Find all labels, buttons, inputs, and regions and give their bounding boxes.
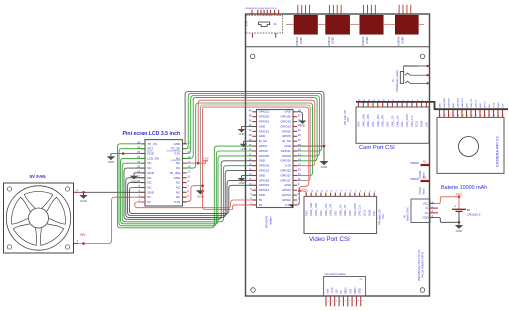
board label PWR [418,249,425,281]
svg-text:CAM_CN: CAM_CN [470,99,473,108]
svg-text:GND: GND [284,183,290,187]
csi ribbon bus wire [356,102,508,109]
svg-text:CAM1_DP1: CAM1_DP1 [382,114,385,127]
usb port USB1 [294,5,318,46]
wire green top 3 [183,97,318,160]
svg-text:(CS,2): (CS,2) [147,151,153,153]
svg-text:CAM1_DP0: CAM1_DP0 [367,114,370,127]
svg-text:21: 21 [298,153,301,157]
svg-text:SCL0: SCL0 [363,209,366,216]
svg-text:11: 11 [298,177,301,181]
GPIO header RPi [249,109,302,208]
svg-text:+5V: +5V [337,289,339,294]
svg-text:5: 5 [345,301,346,303]
junction fan gnd [79,191,87,203]
svg-text:(CS,INT,LD): (CS,INT,LD) [171,160,181,162]
svg-text:NC: NC [423,160,427,163]
svg-text:GPIO8: GPIO8 [259,149,268,153]
svg-text:GND: GND [372,121,375,127]
Raspberry Pi 4 board outline [246,14,430,296]
svg-text:5V: 5V [147,195,151,199]
svg-text:CAM_DP1: CAM_DP1 [461,97,464,108]
svg-text:CAMERA RPI V2: CAMERA RPI V2 [495,136,500,167]
wire gnd pin34 [242,126,257,128]
svg-text:USB3: USB3 [365,36,369,44]
hdmi port HDMI0 [410,160,429,178]
svg-text:Micro: Micro [423,188,426,195]
svg-text:17: 17 [298,162,301,166]
wire dark bot 2 [126,171,257,218]
svg-text:TP_IRQ: TP_IRQ [169,171,181,175]
svg-text:22: 22 [249,153,252,157]
svg-text:38: 38 [249,113,252,117]
svg-text:CAM_CLK: CAM_CLK [411,115,414,127]
svg-text:GPIO12: GPIO12 [259,129,270,133]
camera module CAMERA RPI V2 [437,97,505,173]
svg-text:S2: S2 [274,22,278,26]
svg-text:CAM_GPIO: CAM_GPIO [354,203,357,216]
svg-text:CAM1_CP: CAM1_CP [344,204,347,216]
svg-text:USB1: USB1 [299,36,303,44]
wire red 3.3V top [183,100,315,166]
svg-text:CAM1_DN1: CAM1_DN1 [377,114,380,127]
ground header left 1 [238,127,246,137]
usb port USB3 [360,5,383,46]
svg-text:GPIO11: GPIO11 [281,149,292,153]
wire GND loop top [183,92,325,159]
svg-text:Gnd: Gnd [327,288,329,293]
wire red top horiz [203,107,309,205]
ground right of LCD [196,187,205,198]
mounting hole top-left [250,54,255,59]
svg-text:5V FAN: 5V FAN [30,174,47,179]
svg-text:B1: B1 [467,208,471,212]
svg-text:26: 26 [249,143,252,147]
wire LCD GND row7 [134,172,145,174]
wire green bot 3 [121,156,257,224]
svg-text:GND: GND [439,103,441,108]
svg-text:FPC: FPC [382,214,385,219]
svg-text:GND: GND [284,144,290,148]
svg-text:GND: GND [360,288,362,293]
svg-text:USB-02: USB-02 [327,36,331,46]
svg-text:CAM_DN1: CAM_DN1 [456,97,459,108]
svg-text:GND: GND [259,193,265,197]
svg-text:GND: GND [259,159,265,163]
wire green bot 1 [117,144,256,228]
svg-text:11: 11 [187,174,190,178]
svg-text:GND: GND [453,103,455,108]
svg-text:CAM1_DN0: CAM1_DN0 [362,114,365,127]
LCD connector Pini ecran LCD 3.5 inch [123,131,191,206]
svg-text:GND: GND [480,103,482,108]
svg-text:GPIO21: GPIO21 [259,110,270,114]
wire gray top [200,105,310,187]
svg-text:P=1.5A POWER INPUT: P=1.5A POWER INPUT [422,251,425,278]
mounting hole bottom-left [251,288,256,293]
svg-text:GND: GND [334,210,337,216]
svg-text:SCL0: SCL0 [416,120,419,127]
svg-text:GPIO3: GPIO3 [282,193,291,197]
svg-text:CAM_DP0: CAM_DP0 [447,97,450,108]
ground header right top [299,118,307,128]
svg-text:4: 4 [341,301,342,303]
svg-text:Micro USB-C: Micro USB-C [407,207,410,221]
ethernet port J2 [246,8,283,38]
svg-text:GPIO13: GPIO13 [280,124,291,128]
svg-text:3.3V: 3.3V [174,200,180,204]
usb interconnect stubs [286,24,424,26]
svg-text:24: 24 [249,148,252,152]
svg-text:GPIO20: GPIO20 [259,115,270,119]
svg-text:6: 6 [349,301,350,303]
wire dark bot 1 [124,161,257,220]
wire GND usb-c to battery [435,218,460,223]
svg-text:GPIO17: GPIO17 [280,178,291,182]
svg-text:CAM_CP: CAM_CP [474,99,477,108]
svg-text:GPIO10: GPIO10 [280,159,291,163]
wire GND bundle top [185,143,187,145]
wire fan 5V [78,197,145,243]
svg-text:GND: GND [108,160,116,164]
svg-text:USB4: USB4 [400,36,404,44]
svg-text:GPIO23: GPIO23 [259,169,270,173]
svg-text:header: header [268,216,272,225]
svg-text:GPIO27: GPIO27 [280,173,291,177]
svg-text:GND: GND [259,134,265,138]
junction video 3.3V [298,190,301,193]
svg-text:Video Port CSI: Video Port CSI [309,236,350,243]
svg-text:CAM1_DP1: CAM1_DP1 [330,203,333,216]
svg-text:Cam Port CSI: Cam Port CSI [359,145,395,151]
svg-text:GND: GND [239,181,245,185]
svg-text:GPIO9: GPIO9 [282,154,291,158]
mounting hole top-right [420,54,425,59]
svg-text:ID_SC: ID_SC [259,139,268,143]
audio jack J1 [391,65,429,92]
video port CSI connector [304,190,385,243]
svg-text:GPIO24: GPIO24 [259,164,270,168]
svg-text:NC: NC [423,176,427,179]
svg-text:CAM_GPIO: CAM_GPIO [406,114,409,127]
sd card module [324,272,366,306]
wire VCC usb-c to battery [435,197,460,204]
power flag 3.3V [197,156,209,164]
svg-text:5V: 5V [259,203,263,207]
svg-text:GND: GND [284,110,290,114]
svg-text:5V: 5V [259,198,263,202]
svg-text:CAM_DN0: CAM_DN0 [443,97,446,108]
svg-text:GPIO25: GPIO25 [259,154,270,158]
svg-text:GND: GND [321,165,329,169]
svg-text:1: 1 [328,301,329,303]
wire green top 2 [183,96,320,156]
svg-text:25: 25 [298,143,301,147]
usb port USB2 [326,5,350,46]
svg-text:CAM1_CN: CAM1_CN [391,115,394,127]
svg-text:USB-03: USB-03 [361,36,365,46]
svg-text:3.3V: 3.3V [425,122,428,127]
svg-text:+3.3V: +3.3V [332,287,334,294]
svg-text:CAM1_CN: CAM1_CN [339,204,342,216]
svg-text:GND: GND [174,142,182,146]
svg-text:GPIO14: GPIO14 [259,188,270,192]
svg-text:GPIO5: GPIO5 [282,134,291,138]
svg-text:37: 37 [298,113,301,117]
svg-text:GPIO18: GPIO18 [259,178,270,182]
svg-text:D+: D+ [425,211,429,215]
svg-text:VCC: VCC [423,201,429,205]
svg-text:FPC: FPC [347,117,350,122]
svg-text:3.3V: 3.3V [502,103,504,108]
svg-text:GPIO15: GPIO15 [259,183,270,187]
wire GND branch to pin25 [293,145,324,147]
svg-text:13: 13 [298,172,301,176]
svg-text:16: 16 [249,167,252,171]
wire gnd pin28 [244,140,257,142]
junction fan 5V [82,242,85,245]
svg-text:GND: GND [456,229,464,233]
svg-text:3.3V: 3.3V [285,164,291,168]
svg-text:USB-04: USB-04 [397,36,401,46]
svg-text:GPIO7: GPIO7 [259,144,268,148]
svg-text:12: 12 [249,177,252,181]
svg-text:CAM1_CP: CAM1_CP [396,115,399,127]
wire green top 4 [183,103,313,176]
svg-text:GND: GND [305,210,308,216]
wire gnd pin39 [297,112,302,118]
wire dark bot 3 [128,180,257,215]
svg-text:GPIO6: GPIO6 [282,129,291,133]
svg-text:GPIO2: GPIO2 [282,198,291,202]
svg-text:40: 40 [249,109,252,113]
wire red 5V bot [135,200,257,208]
svg-text:+5V: +5V [79,233,86,237]
svg-text:13: 13 [187,170,191,174]
svg-text:7: 7 [354,301,355,303]
cam port CSI connector [344,100,429,151]
usb port USB4 [395,5,418,46]
svg-text:GPIO16: GPIO16 [259,120,270,124]
wire fan GND to LCD [78,191,145,193]
svg-text:30: 30 [249,133,252,137]
svg-text:GND: GND [239,132,245,136]
svg-text:29: 29 [298,133,301,137]
svg-text:RPi4B-ETH 10/100/1000 (TO-3): RPi4B-ETH 10/100/1000 (TO-3) [246,8,277,10]
svg-text:GND: GND [259,173,265,177]
svg-text:36: 36 [249,118,252,122]
svg-text:CLK: CLK [489,103,491,108]
svg-text:LCD_RS: LCD_RS [147,156,159,160]
svg-text:CAM_CLK: CAM_CLK [359,204,362,216]
svg-text:GND: GND [241,147,247,151]
svg-text:GND: GND [147,171,155,175]
wire green top 1 [183,94,322,151]
svg-text:CAM1_DN0: CAM1_DN0 [310,203,313,216]
svg-text:GND: GND [80,199,88,203]
svg-text:CAM1_DN1: CAM1_DN1 [325,203,328,216]
svg-text:sd card module: sd card module [324,272,345,276]
svg-text:CR1220-2: CR1220-2 [467,213,481,217]
svg-text:18: 18 [249,162,252,166]
svg-text:2: 2 [332,301,333,303]
wire gnd pin14 [242,175,257,177]
svg-text:CS: CS [341,290,343,294]
svg-text:ID_SD: ID_SD [282,139,291,143]
svg-text:3.3V: 3.3V [373,211,376,216]
svg-text:15: 15 [298,167,301,171]
svg-text:GND: GND [320,210,323,216]
svg-text:19: 19 [298,158,301,162]
wire green bot 4 [122,163,256,222]
svg-text:GND: GND [174,176,182,180]
wire red 3.3V branch LCD [183,186,203,202]
svg-text:5V: 5V [147,200,151,204]
svg-text:SHIELD: SHIELD [410,162,419,165]
mounting hole bottom-right [420,288,425,293]
svg-text:GPIO0: GPIO0 [484,101,486,108]
svg-text:20: 20 [249,158,252,162]
svg-text:(1.5)V: (1.5)V [301,189,307,191]
svg-text:GND: GND [349,210,352,216]
svg-text:GND: GND [300,124,306,128]
ground LCD left 1 [107,152,125,164]
svg-text:Pini ecran LCD 3.5 inch: Pini ecran LCD 3.5 inch [123,131,181,137]
net label 5V video [301,189,307,191]
svg-text:SHIELD: SHIELD [410,178,419,181]
svg-text:-: - [455,212,456,216]
GPIO header label [265,215,273,228]
svg-text:23: 23 [298,148,301,152]
svg-text:8: 8 [358,301,359,303]
svg-text:GND: GND [387,121,390,127]
ground header left 2 [240,141,248,151]
svg-text:3.5mmAudio_socket: 3.5mmAudio_socket [396,70,399,92]
fan 5V FAN [4,174,79,253]
svg-text:SCK: SCK [350,288,352,293]
svg-text:GPIO4: GPIO4 [282,188,291,192]
svg-text:SDA0: SDA0 [497,102,500,108]
svg-text:10: 10 [249,182,252,186]
svg-text:MOSI: MOSI [346,287,348,293]
svg-text:GPIO22: GPIO22 [280,169,291,173]
wire red 5V branch pin2 [232,205,256,210]
svg-text:GND: GND [401,121,404,127]
svg-text:SDA0: SDA0 [368,209,371,216]
ground right of header [319,145,328,169]
svg-text:USB2: USB2 [331,36,335,44]
svg-text:D-: D- [426,206,429,210]
junction red branch [201,184,204,187]
svg-text:32: 32 [249,128,252,132]
wire green bot 2 [119,149,257,226]
svg-text:9: 9 [362,301,363,303]
svg-text:3: 3 [336,301,337,303]
svg-text:SDA0: SDA0 [421,120,424,127]
svg-text:GND: GND [147,190,155,194]
svg-text:+: + [454,204,456,208]
svg-text:GPIO26: GPIO26 [280,115,291,119]
svg-text:3.3V: 3.3V [202,156,208,160]
svg-text:TP_CS: TP_CS [147,142,157,146]
hdmi port HDMI1 [410,176,429,194]
svg-text:ETH: ETH [246,21,248,26]
svg-text:(CS,DOWN,IRQ): (CS,DOWN,IRQ) [167,151,181,153]
svg-text:SCL0: SCL0 [493,102,495,108]
svg-text:GND: GND [466,103,468,108]
svg-text:GND: GND [357,121,360,127]
svg-text:27: 27 [298,138,301,142]
wire red 5V inner [203,107,233,209]
wire dark bot 4 [129,185,256,213]
svg-text:Baterie 10000 mAh: Baterie 10000 mAh [441,185,487,191]
svg-text:MISO: MISO [355,287,357,293]
usb-c power connector J3 [403,199,438,223]
wire 3.3V header to video port [300,191,307,197]
svg-text:USB-01: USB-01 [295,36,299,46]
svg-text:31: 31 [298,128,301,132]
svg-text:GND: GND [423,216,429,220]
ground header left 3 [238,176,246,186]
svg-text:CAM1_DP0: CAM1_DP0 [315,203,318,216]
wire LCD GND row3 [111,153,145,155]
power label +5V fan [79,233,86,237]
svg-text:GPIO19: GPIO19 [280,120,291,124]
svg-text:GND: GND [259,124,265,128]
svg-text:GND: GND [197,195,205,199]
ground LCD left 2 [130,173,138,184]
battery B1 10000mAh [441,185,487,233]
